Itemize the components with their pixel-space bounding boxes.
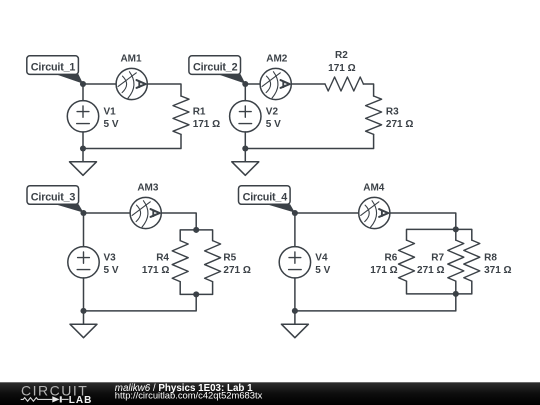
svg-text:Circuit_3: Circuit_3 xyxy=(31,191,76,203)
svg-text:R5: R5 xyxy=(223,253,236,264)
svg-text:5 V: 5 V xyxy=(266,119,281,130)
svg-text:V3: V3 xyxy=(104,253,117,264)
svg-text:AM3: AM3 xyxy=(137,183,159,194)
svg-text:AM4: AM4 xyxy=(363,183,385,194)
svg-text:R7: R7 xyxy=(431,253,444,264)
svg-text:371 Ω: 371 Ω xyxy=(484,265,511,276)
svg-text:V2: V2 xyxy=(266,106,279,117)
svg-text:AM2: AM2 xyxy=(266,54,288,65)
svg-text:LAB: LAB xyxy=(69,395,93,405)
svg-text:R4: R4 xyxy=(156,253,169,264)
svg-text:Circuit_4: Circuit_4 xyxy=(243,191,288,203)
svg-text:V1: V1 xyxy=(104,106,117,117)
svg-text:271 Ω: 271 Ω xyxy=(386,119,413,130)
svg-text:R3: R3 xyxy=(386,106,399,117)
svg-text:171 Ω: 171 Ω xyxy=(193,119,220,130)
svg-text:R2: R2 xyxy=(335,50,348,61)
svg-text:171 Ω: 171 Ω xyxy=(142,265,169,276)
svg-text:Circuit_1: Circuit_1 xyxy=(31,61,76,73)
svg-text:R8: R8 xyxy=(484,253,497,264)
svg-text:R6: R6 xyxy=(385,253,398,264)
svg-text:AM1: AM1 xyxy=(120,54,142,65)
svg-text:http://circuitlab.com/c42qt52m: http://circuitlab.com/c42qt52m683tx xyxy=(115,390,263,401)
svg-text:271 Ω: 271 Ω xyxy=(223,265,250,276)
svg-text:5 V: 5 V xyxy=(104,119,119,130)
svg-text:5 V: 5 V xyxy=(104,265,119,276)
svg-text:171 Ω: 171 Ω xyxy=(370,265,397,276)
svg-text:5 V: 5 V xyxy=(315,265,330,276)
svg-text:271 Ω: 271 Ω xyxy=(417,265,444,276)
svg-text:Circuit_2: Circuit_2 xyxy=(193,61,238,73)
svg-text:R1: R1 xyxy=(193,106,206,117)
svg-text:171 Ω: 171 Ω xyxy=(328,63,355,74)
svg-text:V4: V4 xyxy=(315,253,328,264)
